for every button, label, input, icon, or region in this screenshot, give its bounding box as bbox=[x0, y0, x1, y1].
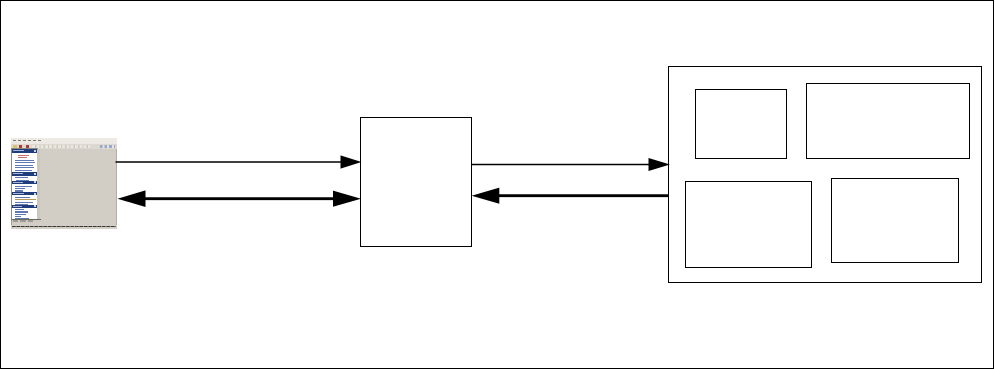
middle interface box bbox=[360, 117, 472, 247]
header2 bbox=[12, 172, 38, 175]
thick arrow right->middle bbox=[497, 194, 669, 197]
sidebar scrollbar bbox=[37, 149, 40, 221]
sidebar bbox=[12, 149, 38, 221]
thick double arrow left<->middle bbox=[140, 197, 336, 200]
inner box top-right bbox=[806, 83, 970, 159]
thin arrow middle->right bbox=[472, 164, 651, 166]
inner box bottom-left bbox=[685, 181, 812, 268]
client application screenshot window bbox=[11, 138, 117, 229]
header4 bbox=[12, 192, 38, 195]
header3 bbox=[12, 181, 38, 184]
thin arrow left->middle bbox=[116, 161, 342, 163]
sidebar bottom edge bbox=[12, 218, 42, 221]
inner box bottom-right bbox=[831, 178, 959, 264]
inner box top-left bbox=[695, 89, 788, 160]
header5 bbox=[12, 205, 38, 208]
sidebar bottom tabs bbox=[12, 220, 43, 223]
menu bar bbox=[11, 138, 117, 144]
header1 bbox=[12, 149, 38, 152]
toolbar bbox=[11, 144, 117, 149]
status bar bbox=[11, 225, 117, 229]
right system outer box bbox=[668, 66, 982, 283]
